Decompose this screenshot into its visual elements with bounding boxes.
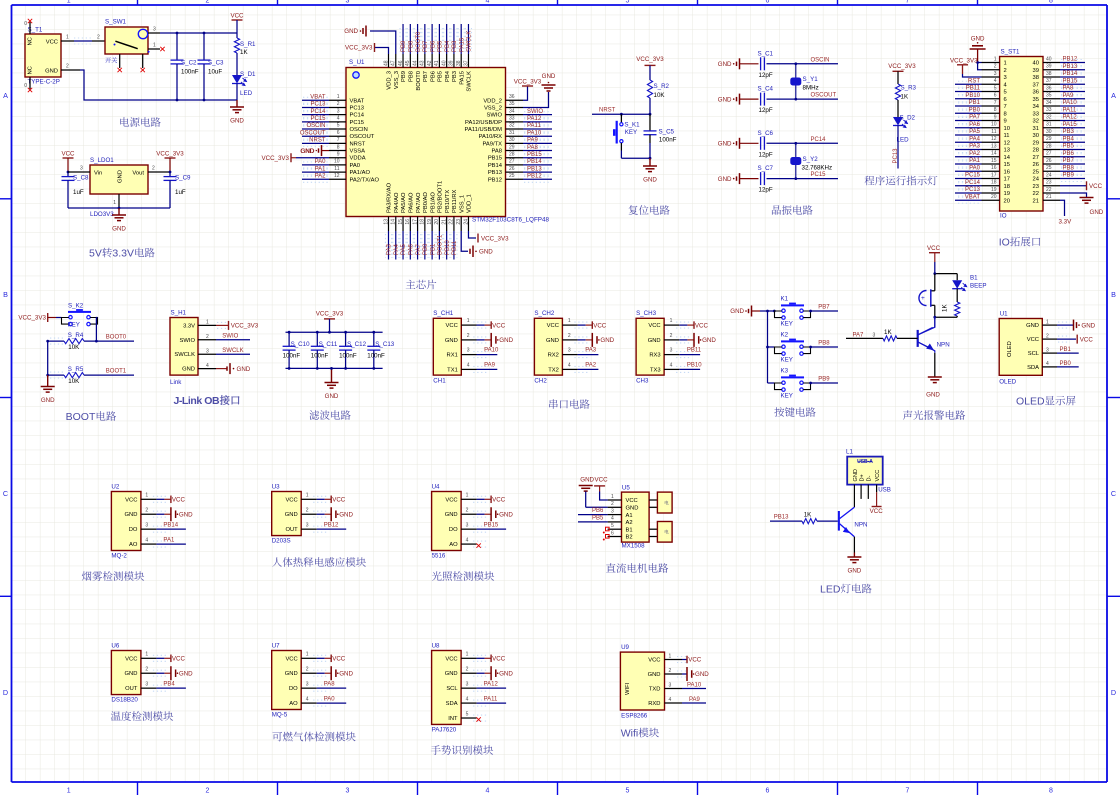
svg-text:VCC: VCC <box>125 656 137 662</box>
wire OSCOUT <box>767 98 839 100</box>
svg-text:VCC: VCC <box>445 656 457 662</box>
svg-text:GND: GND <box>643 177 657 184</box>
svg-text:8: 8 <box>1049 0 1053 5</box>
LED S_D1 <box>232 75 242 84</box>
svg-text:5516: 5516 <box>432 552 446 559</box>
svg-text:17: 17 <box>412 219 418 225</box>
svg-text:4: 4 <box>466 696 469 702</box>
svg-text:VCC: VCC <box>595 477 609 484</box>
svg-text:PA0: PA0 <box>969 165 981 171</box>
svg-text:S_C11: S_C11 <box>319 341 338 348</box>
svg-text:S_R3: S_R3 <box>901 85 917 92</box>
svg-text:PB12: PB12 <box>324 523 339 529</box>
svg-text:GND: GND <box>542 73 556 80</box>
svg-text:S_C2: S_C2 <box>181 60 197 67</box>
capacitor S_C7 12pF <box>761 172 765 185</box>
svg-text:USB: USB <box>878 486 891 493</box>
svg-text:32.768KHz: 32.768KHz <box>802 165 833 172</box>
svg-text:S_K2: S_K2 <box>68 303 84 310</box>
svg-text:K3: K3 <box>781 368 789 375</box>
capacitor S_C4 12pF <box>761 93 765 106</box>
net label PB7 wire <box>811 310 839 312</box>
svg-text:3: 3 <box>466 682 469 688</box>
svg-text:32: 32 <box>509 123 515 129</box>
capacitor S_C13 100nF <box>373 332 375 346</box>
switch bottom pins no-connect <box>119 54 121 68</box>
net label PA10 S_CH1 RX <box>477 354 498 356</box>
svg-text:PB4: PB4 <box>445 70 451 82</box>
svg-text:S_SW1: S_SW1 <box>105 19 127 26</box>
svg-text:PB8: PB8 <box>1063 165 1075 171</box>
svg-text:GND: GND <box>230 118 244 125</box>
title main chip <box>406 280 416 289</box>
power flag VCC_3V3 jlink pin1 <box>217 322 227 328</box>
svg-text:35: 35 <box>1046 93 1052 99</box>
svg-text:36: 36 <box>509 94 515 100</box>
module U8 PAJ7620 <box>432 651 462 725</box>
svg-text:U1: U1 <box>1000 311 1008 318</box>
svg-text:L1: L1 <box>846 449 853 456</box>
U3 pin 3 OUT <box>301 528 317 530</box>
svg-text:S_U1: S_U1 <box>349 59 365 66</box>
module U3 D203S <box>272 492 302 536</box>
net label SWIO wire jlink pin2 <box>216 339 250 341</box>
svg-text:PA11: PA11 <box>1063 107 1077 113</box>
net label PA9 wire wifi <box>682 702 706 704</box>
svg-text:PB3: PB3 <box>452 71 458 82</box>
ground S_CH3 <box>679 339 687 341</box>
LDO pin2 wire <box>148 171 170 173</box>
svg-text:10: 10 <box>1004 126 1010 132</box>
svg-text:PA3/RX/AO: PA3/RX/AO <box>387 182 393 213</box>
svg-text:6: 6 <box>337 130 340 136</box>
svg-text:OSCOUT: OSCOUT <box>300 130 326 136</box>
svg-text:GND: GND <box>445 512 458 518</box>
svg-text:PA3: PA3 <box>969 144 981 150</box>
svg-text:PA1: PA1 <box>163 537 175 543</box>
svg-text:40: 40 <box>1046 56 1052 62</box>
svg-text:6: 6 <box>1004 97 1007 103</box>
svg-text:30: 30 <box>1033 133 1039 139</box>
svg-text:11: 11 <box>1004 133 1010 139</box>
svg-text:PB13: PB13 <box>1063 64 1078 70</box>
svg-text:PB2/BOOT1: PB2/BOOT1 <box>438 181 444 213</box>
svg-text:D203S: D203S <box>272 538 291 545</box>
svg-text:2: 2 <box>97 35 100 41</box>
crystal S_Y1 8MHz <box>794 62 797 65</box>
svg-text:S_C10: S_C10 <box>291 341 310 348</box>
svg-text:28: 28 <box>509 151 515 157</box>
svg-text:1: 1 <box>306 493 309 499</box>
svg-text:U9: U9 <box>621 644 629 651</box>
svg-text:18: 18 <box>991 180 997 186</box>
svg-text:4: 4 <box>568 362 571 368</box>
ground alarm <box>934 353 936 377</box>
power flag VCC_3V3 U1 VDD_2 <box>523 86 528 100</box>
svg-text:PA10: PA10 <box>1063 100 1078 106</box>
display U1 OLED <box>999 319 1042 376</box>
U6 pin 3 OUT <box>141 687 157 689</box>
net label PB13 wire <box>770 520 802 522</box>
switch pin 1 no-connect <box>148 48 160 50</box>
svg-text:VCC_3V3: VCC_3V3 <box>345 45 373 52</box>
svg-text:4: 4 <box>145 537 148 543</box>
svg-text:28: 28 <box>1046 143 1052 149</box>
svg-text:2: 2 <box>994 64 997 70</box>
svg-text:PA2: PA2 <box>315 173 327 179</box>
capacitor S_C2 100nF <box>176 33 178 60</box>
svg-text:1: 1 <box>67 0 71 5</box>
svg-text:S_D1: S_D1 <box>240 71 256 78</box>
power flag VCC S_ST1 pin 23 <box>1060 185 1086 187</box>
svg-text:SCL: SCL <box>1028 351 1040 357</box>
svg-text:24: 24 <box>463 219 469 225</box>
power flag VCC ldo input <box>63 157 74 159</box>
svg-text:VCC_3V3: VCC_3V3 <box>18 315 46 322</box>
svg-text:GND: GND <box>1026 323 1039 329</box>
svg-text:3: 3 <box>145 523 148 529</box>
svg-text:38: 38 <box>1046 71 1052 77</box>
svg-text:VCC: VCC <box>648 658 660 664</box>
svg-text:0: 0 <box>24 83 27 89</box>
svg-text:PA9: PA9 <box>1063 93 1075 99</box>
svg-text:BEEP: BEEP <box>970 283 987 290</box>
svg-text:39: 39 <box>1046 64 1052 70</box>
connector L1 USB-A <box>847 457 883 485</box>
svg-text:3: 3 <box>153 27 156 33</box>
title 手势识别模块 <box>431 745 441 755</box>
svg-text:PB1/AO: PB1/AO <box>430 192 436 213</box>
svg-text:KEY: KEY <box>781 357 793 364</box>
svg-text:SWCLK: SWCLK <box>467 31 473 52</box>
svg-text:PA9: PA9 <box>527 138 539 144</box>
svg-text:SWIO: SWIO <box>222 334 238 340</box>
svg-text:33: 33 <box>1033 111 1039 117</box>
svg-text:PC13: PC13 <box>350 105 365 111</box>
svg-text:1: 1 <box>1004 61 1007 67</box>
svg-text:STM32F103C8T6_LQFP48: STM32F103C8T6_LQFP48 <box>472 217 549 224</box>
svg-text:100nF: 100nF <box>181 69 199 76</box>
svg-text:VCC_3V3: VCC_3V3 <box>888 63 916 70</box>
capacitor S_C3 10uF <box>203 33 205 60</box>
svg-text:VSSA: VSSA <box>350 149 366 155</box>
L1 pin VCC <box>876 485 878 493</box>
svg-text:32: 32 <box>1033 119 1039 125</box>
U8 pin 5 INT <box>461 717 477 719</box>
svg-text:PB7: PB7 <box>1063 158 1075 164</box>
svg-text:13: 13 <box>1004 148 1010 154</box>
svg-text:S_C9: S_C9 <box>175 175 191 182</box>
svg-text:LED: LED <box>820 584 841 596</box>
svg-text:OSCIN: OSCIN <box>306 123 325 129</box>
svg-text:S_C7: S_C7 <box>758 165 774 172</box>
svg-text:WIFI: WIFI <box>625 682 631 695</box>
svg-text:PB15: PB15 <box>527 152 542 158</box>
svg-text:PB7: PB7 <box>818 305 830 311</box>
svg-text:PB10: PB10 <box>445 240 451 255</box>
svg-text:2: 2 <box>206 0 210 5</box>
transistor Q NPN alarm <box>934 317 936 327</box>
svg-text:SDA: SDA <box>1027 365 1039 371</box>
power flag VCC_3V3 U1 VDD_3 <box>375 48 389 55</box>
svg-text:PB15: PB15 <box>484 523 499 529</box>
power flag VCC_3V3 boot <box>47 313 49 322</box>
svg-text:Vin: Vin <box>94 171 102 177</box>
svg-text:3: 3 <box>466 523 469 529</box>
svg-text:15: 15 <box>1004 162 1010 168</box>
net label PB11 S_CH3 RX <box>679 354 700 356</box>
transistor Q NPN led <box>838 511 840 531</box>
svg-text:SCL: SCL <box>446 686 458 692</box>
svg-text:PA10: PA10 <box>484 348 499 354</box>
svg-text:S_C8: S_C8 <box>73 175 89 182</box>
svg-text:6: 6 <box>994 93 997 99</box>
svg-text:PB12: PB12 <box>1063 57 1078 63</box>
U7 pin 1 VCC <box>301 657 317 659</box>
S_T1 pin 0 bottom no-connect <box>29 77 31 89</box>
svg-text:AO: AO <box>289 701 298 707</box>
power flag VCC_3V3 ldo output <box>165 157 176 159</box>
svg-text:Wifi: Wifi <box>621 728 638 740</box>
svg-text:33: 33 <box>509 116 515 122</box>
svg-text:PB3: PB3 <box>452 40 458 52</box>
svg-text:S_LDO1: S_LDO1 <box>90 157 114 164</box>
svg-text:PA3: PA3 <box>387 243 393 255</box>
svg-text:5: 5 <box>337 123 340 129</box>
svg-text:GND: GND <box>695 671 709 678</box>
svg-text:PB11: PB11 <box>966 86 981 92</box>
svg-text:2: 2 <box>1046 333 1049 339</box>
svg-text:1: 1 <box>611 494 614 500</box>
svg-text:5: 5 <box>626 0 630 5</box>
resistor 1K led <box>802 519 817 524</box>
svg-text:4: 4 <box>466 537 469 543</box>
svg-text:2: 2 <box>466 508 469 514</box>
ground U1 VSS_2 <box>523 92 549 108</box>
svg-text:29: 29 <box>1046 136 1052 142</box>
svg-text:GND: GND <box>626 506 639 512</box>
motor connector B <box>649 528 657 530</box>
svg-text:15: 15 <box>398 219 404 225</box>
ground U1 VSS_3 <box>370 31 396 54</box>
svg-text:PA10: PA10 <box>527 130 542 136</box>
svg-text:6: 6 <box>766 788 770 795</box>
U2 pin 1 VCC <box>141 498 157 500</box>
svg-text:SWCLK: SWCLK <box>222 348 243 354</box>
svg-text:100nF: 100nF <box>339 353 357 360</box>
svg-text:U2: U2 <box>111 484 119 491</box>
svg-text:PA6/AO: PA6/AO <box>409 192 415 213</box>
svg-text:9: 9 <box>1004 119 1007 125</box>
filter top rail <box>286 331 383 333</box>
svg-text:PA10/RX: PA10/RX <box>479 134 503 140</box>
svg-text:2: 2 <box>306 508 309 514</box>
svg-text:1: 1 <box>67 788 71 795</box>
ground U1 VSS_1 <box>461 231 468 251</box>
svg-text:4: 4 <box>1046 361 1049 367</box>
power flag VCC wifi <box>677 657 686 663</box>
L1 pin D+ <box>860 485 862 499</box>
svg-text:K2: K2 <box>781 332 789 339</box>
ground jlink pin4 <box>216 368 227 370</box>
svg-text:GND: GND <box>718 176 732 183</box>
svg-text:BOOT0: BOOT0 <box>416 71 422 91</box>
svg-text:1K: 1K <box>942 304 949 312</box>
svg-text:PB10: PB10 <box>687 363 702 369</box>
svg-text:12pF: 12pF <box>759 107 773 114</box>
svg-text:VCC: VCC <box>445 497 457 503</box>
svg-text:S_R5: S_R5 <box>68 366 84 373</box>
U4 pin 2 GND <box>461 513 477 515</box>
svg-text:8MHz: 8MHz <box>803 85 819 92</box>
driver U5 MX1508 <box>622 492 650 542</box>
svg-text:TXD: TXD <box>649 687 661 693</box>
svg-text:VCC: VCC <box>927 245 941 252</box>
svg-text:PB12: PB12 <box>488 177 502 183</box>
svg-text:22: 22 <box>1046 187 1052 193</box>
motor connector A <box>649 499 657 501</box>
svg-text:10K: 10K <box>68 378 80 385</box>
svg-text:PA11: PA11 <box>484 696 498 702</box>
svg-text:A1: A1 <box>626 513 633 519</box>
svg-text:LDO3V3: LDO3V3 <box>90 211 114 218</box>
svg-text:5: 5 <box>994 85 997 91</box>
title crystal circuit <box>772 205 781 215</box>
LED S_D2 <box>893 117 903 126</box>
svg-text:U4: U4 <box>432 484 440 491</box>
svg-text:36: 36 <box>1033 90 1039 96</box>
svg-text:VCC: VCC <box>593 322 607 329</box>
svg-text:U7: U7 <box>272 643 280 650</box>
svg-text:6: 6 <box>611 530 614 536</box>
svg-text:VDD_3: VDD_3 <box>387 71 393 90</box>
svg-text:PB4: PB4 <box>445 40 451 52</box>
svg-text:1: 1 <box>306 652 309 658</box>
svg-text:PB8: PB8 <box>409 40 415 52</box>
svg-text:RST: RST <box>968 78 980 84</box>
svg-text:PB11/RX: PB11/RX <box>452 189 458 213</box>
svg-text:PA2: PA2 <box>585 363 597 369</box>
U4 pin 1 VCC <box>461 498 477 500</box>
net label PA3 S_CH2 RX <box>578 354 599 356</box>
svg-text:3: 3 <box>1004 75 1007 81</box>
svg-text:GND: GND <box>182 367 195 373</box>
svg-text:PC15: PC15 <box>310 116 326 122</box>
svg-text:12pF: 12pF <box>759 151 773 158</box>
resistor S_R3 1K <box>895 84 900 100</box>
U8 pin 3 SCL <box>461 687 477 689</box>
svg-text:PB1: PB1 <box>1060 347 1072 353</box>
svg-text:10K: 10K <box>654 92 666 99</box>
svg-text:17: 17 <box>991 172 997 178</box>
svg-text:BOOT1: BOOT1 <box>106 369 127 375</box>
net label BOOT0 wire <box>84 340 134 342</box>
svg-text:PB8: PB8 <box>409 71 415 82</box>
svg-text:PB15: PB15 <box>1063 78 1078 84</box>
svg-text:GND: GND <box>285 671 298 677</box>
resistor S_R4 10K <box>50 338 64 344</box>
svg-text:1: 1 <box>466 493 469 499</box>
svg-text:12pF: 12pF <box>759 187 773 194</box>
svg-text:35: 35 <box>1033 97 1039 103</box>
svg-text:S_Y1: S_Y1 <box>803 76 819 83</box>
net 3.3V S_ST1 pin 21 <box>1060 200 1065 216</box>
svg-text:15: 15 <box>991 158 997 164</box>
ground led circuit <box>853 537 855 553</box>
svg-text:7: 7 <box>337 137 340 143</box>
svg-text:PB15: PB15 <box>488 156 502 162</box>
svg-text:SWIO: SWIO <box>180 338 196 344</box>
svg-text:3.3V: 3.3V <box>112 248 134 260</box>
svg-text:PA0: PA0 <box>324 696 336 702</box>
resistor 1K alarm base <box>883 336 897 341</box>
svg-text:VCC: VCC <box>1080 336 1094 343</box>
svg-text:1K: 1K <box>901 94 909 101</box>
svg-text:PB5: PB5 <box>592 515 604 521</box>
svg-text:2: 2 <box>152 166 155 172</box>
svg-text:PA7: PA7 <box>969 115 981 121</box>
svg-text:D-: D- <box>867 475 873 481</box>
ground S_CH2 <box>578 339 586 341</box>
U5 pin5 no-connect <box>606 527 610 531</box>
resistor S_R1 1K <box>234 38 239 53</box>
svg-text:PB12: PB12 <box>527 173 542 179</box>
svg-text:12: 12 <box>1004 140 1010 146</box>
svg-text:PA8: PA8 <box>1063 86 1075 92</box>
power flag VCC S_CH2 <box>578 324 586 326</box>
svg-text:U8: U8 <box>432 643 440 650</box>
svg-text:42: 42 <box>427 60 433 66</box>
ground power circuit <box>236 100 238 107</box>
title 光照检测模块 <box>432 571 442 581</box>
svg-text:PB4: PB4 <box>1063 136 1075 142</box>
svg-text:100nF: 100nF <box>659 137 677 144</box>
svg-text:25: 25 <box>1033 169 1039 175</box>
svg-text:34: 34 <box>509 108 515 114</box>
junction dots power rails <box>176 32 179 35</box>
svg-text:38: 38 <box>1033 75 1039 81</box>
svg-text:2: 2 <box>466 667 469 673</box>
svg-text:37: 37 <box>1046 78 1052 84</box>
svg-text:PB6: PB6 <box>592 508 604 514</box>
svg-text:20: 20 <box>1004 198 1010 204</box>
svg-text:VCC: VCC <box>46 40 58 46</box>
title key circuit <box>774 407 784 417</box>
module U6 DS18B20 <box>111 651 140 695</box>
svg-text:PA6: PA6 <box>969 122 981 128</box>
ground ldo <box>118 208 120 215</box>
svg-text:12pF: 12pF <box>759 72 773 79</box>
svg-text:17: 17 <box>1004 177 1010 183</box>
svg-text:GND: GND <box>971 36 985 43</box>
svg-text:PA15: PA15 <box>1063 122 1078 128</box>
svg-text:PB14: PB14 <box>527 159 542 165</box>
svg-text:16: 16 <box>991 165 997 171</box>
svg-text:B1: B1 <box>970 275 978 282</box>
svg-text:GND: GND <box>45 69 58 75</box>
svg-text:4: 4 <box>611 516 614 522</box>
net label PB8 wire <box>811 346 839 348</box>
svg-text:46: 46 <box>398 60 404 66</box>
svg-text:1: 1 <box>145 652 148 658</box>
svg-text:1uF: 1uF <box>175 189 186 196</box>
switch pin 3 to VCC rail <box>148 32 160 34</box>
svg-text:S_R2: S_R2 <box>654 83 670 90</box>
svg-text:VCC: VCC <box>285 656 297 662</box>
svg-text:18: 18 <box>420 219 426 225</box>
svg-text:4: 4 <box>994 78 997 84</box>
svg-text:GND: GND <box>853 469 859 481</box>
